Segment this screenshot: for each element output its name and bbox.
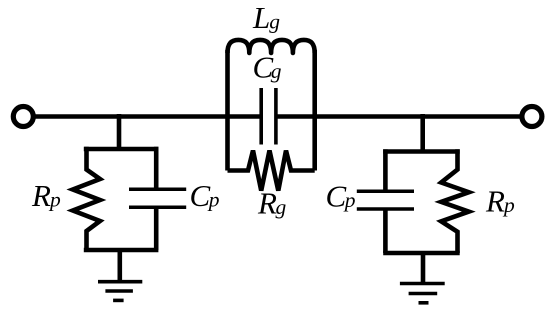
capacitor Cp (right) [357, 149, 414, 253]
resistor Rg [228, 151, 315, 191]
resistor Rp (left) [73, 147, 100, 250]
wire: left shunt stub [117, 114, 122, 149]
wire: right box top [383, 149, 460, 154]
svg-text:Rp: Rp [31, 178, 61, 213]
svg-text:Cp: Cp [326, 179, 356, 214]
svg-text:Lg: Lg [252, 0, 280, 35]
svg-text:Cg: Cg [253, 50, 282, 85]
wire: left box bottom [84, 248, 159, 253]
ground (left) [98, 282, 142, 301]
inductor Lg [228, 40, 315, 53]
capacitor Cp (left) [129, 147, 186, 250]
resistor Rp (right) [441, 149, 469, 253]
capacitor Cg [261, 88, 276, 145]
svg-text:Rp: Rp [485, 184, 515, 219]
wire: right box bottom [383, 251, 460, 256]
wire: middle box left rail [225, 50, 230, 171]
svg-text:Rg: Rg [257, 186, 286, 221]
wire: left ground stem [118, 250, 123, 282]
wire: right shunt stub [420, 114, 425, 152]
right terminal port [522, 107, 542, 127]
wire: main line right segment [276, 114, 520, 119]
wire: main line left segment [35, 114, 261, 119]
wire: middle box right rail [312, 50, 317, 171]
svg-text:Cp: Cp [190, 178, 220, 213]
wire: right ground stem [421, 253, 426, 284]
wire: left box top [84, 147, 159, 152]
left terminal port [13, 107, 33, 127]
ground (right) [400, 284, 445, 303]
